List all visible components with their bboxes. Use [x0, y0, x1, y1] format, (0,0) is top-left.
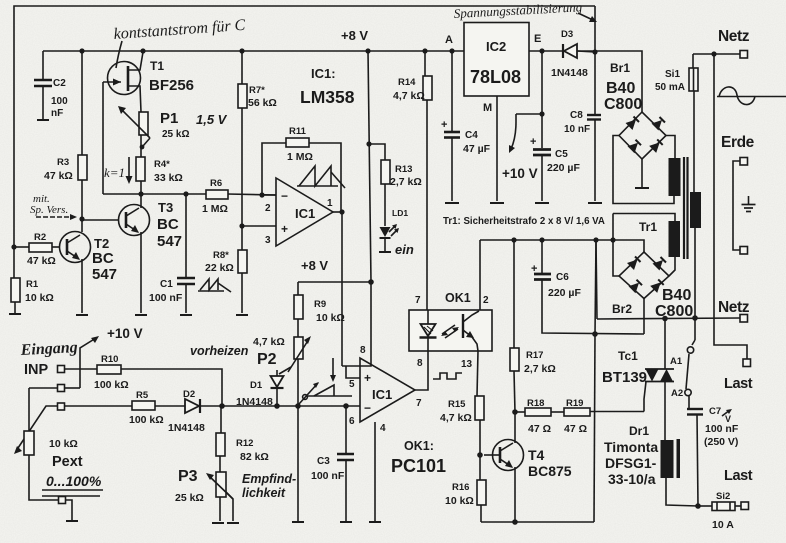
AC sine symbol	[717, 87, 786, 105]
terminal square Last upper	[743, 359, 751, 367]
svg-text:100 kΩ: 100 kΩ	[94, 379, 129, 391]
wire right rail x594 lower	[594, 334, 595, 522]
potentiometer P1 25k	[118, 106, 228, 149]
capacitor C8 10nF	[564, 110, 602, 203]
wire border right rail with C8	[594, 6, 596, 114]
svg-text:4,7 kΩ: 4,7 kΩ	[440, 412, 472, 424]
transistor T4 BC875	[484, 440, 572, 480]
svg-text:56 kΩ: 56 kΩ	[248, 97, 277, 109]
svg-text:T2: T2	[94, 236, 109, 251]
svg-text:A2: A2	[671, 388, 683, 399]
svg-text:D3: D3	[561, 29, 573, 40]
svg-text:R3: R3	[57, 157, 69, 168]
wire T1 gate down to R6 line	[102, 82, 104, 194]
ground stub T2	[76, 314, 88, 316]
resistor R19 47ohm	[564, 398, 644, 435]
wire OK1 pin2 up	[479, 240, 481, 310]
node dot x542	[539, 48, 544, 53]
node dot R13 branch	[366, 141, 371, 146]
terminal square Pext bottom	[59, 497, 66, 504]
svg-text:OK1: OK1	[445, 291, 471, 305]
bridge rectifier Br1 B40 C800	[604, 61, 666, 159]
resistor R14 4.7k	[393, 51, 432, 310]
svg-text:Last: Last	[724, 376, 753, 392]
choke Dr1 Timonta	[604, 424, 698, 506]
svg-text:10 kΩ: 10 kΩ	[25, 292, 54, 304]
node dot R17 top	[511, 237, 516, 242]
capacitor C7 100nF 250V	[687, 406, 739, 506]
svg-text:Br1: Br1	[610, 61, 630, 75]
node dot P2 ground rail	[295, 403, 301, 409]
handwritten k=1 and arrow	[104, 157, 133, 184]
bridge rectifier Br2 B40 C800	[612, 252, 693, 320]
node dot top rail x82	[79, 48, 84, 53]
svg-text:R17: R17	[526, 350, 543, 361]
resistor R8* 22k	[205, 250, 248, 315]
svg-text:R7*: R7*	[249, 85, 265, 96]
resistor R9 10k	[294, 282, 345, 337]
resistor R2 47k	[14, 232, 60, 267]
ground stub Br1	[635, 159, 649, 188]
wire IC1a output down	[341, 212, 343, 366]
transistor T2 BC547	[60, 232, 118, 314]
svg-text:C800: C800	[655, 303, 693, 320]
svg-text:C5: C5	[555, 149, 568, 160]
svg-text:P2: P2	[257, 351, 277, 368]
transformer Tr1 winding secondary 1	[669, 158, 681, 196]
svg-text:R15: R15	[448, 399, 466, 410]
resistor R10 100k	[65, 354, 223, 406]
svg-text:100 nF: 100 nF	[149, 292, 183, 304]
node A dot	[422, 48, 427, 53]
wire Br2 AC loop	[613, 214, 675, 277]
svg-text:1N4148: 1N4148	[551, 67, 588, 79]
wire Netz top with terminal	[693, 51, 748, 59]
wire IC2 M pin ground	[490, 96, 504, 203]
svg-text:1N4148: 1N4148	[236, 396, 273, 408]
svg-text:4: 4	[380, 423, 386, 434]
svg-text:47 Ω: 47 Ω	[528, 423, 551, 435]
svg-text:R10: R10	[101, 354, 118, 365]
svg-text:220 µF: 220 µF	[547, 162, 580, 174]
svg-text:1 MΩ: 1 MΩ	[202, 203, 228, 215]
handwritten Spannungsstabilisierung with arrow	[453, 0, 597, 22]
svg-text:ein: ein	[395, 242, 414, 257]
label Netz lower	[718, 299, 750, 316]
svg-text:Tr1: Sicherheitstrafo 2 x 8 V/: Tr1: Sicherheitstrafo 2 x 8 V/ 1,6 VA	[443, 216, 605, 227]
handwritten label kontstantstrom fuer C	[113, 17, 246, 68]
node dot Si2 junction	[695, 503, 701, 509]
node dot x595	[592, 49, 597, 54]
svg-text:10 kΩ: 10 kΩ	[445, 495, 474, 507]
svg-text:10 nF: 10 nF	[564, 124, 590, 135]
label Tr1	[639, 220, 657, 234]
svg-text:R11: R11	[289, 126, 307, 137]
svg-text:Netz: Netz	[718, 28, 750, 45]
svg-text:10 kΩ: 10 kΩ	[316, 312, 345, 324]
svg-text:BC: BC	[157, 216, 179, 233]
label +8V near op-amp	[301, 258, 328, 273]
label Last upper	[724, 376, 753, 392]
sawtooth glyph above op-amp	[297, 166, 345, 188]
svg-text:R16: R16	[452, 482, 469, 493]
svg-text:R8*: R8*	[213, 250, 229, 261]
svg-text:+: +	[441, 119, 447, 131]
transistor T1 BF256	[103, 52, 194, 112]
svg-text:13: 13	[461, 359, 473, 370]
svg-text:100 nF: 100 nF	[311, 470, 345, 482]
wire +8V top rail left part	[43, 50, 464, 52]
label Last lower	[724, 468, 753, 484]
node dot R4-T3 x141 y194	[138, 191, 143, 196]
svg-text:D2: D2	[183, 389, 195, 400]
svg-text:8: 8	[360, 345, 366, 356]
svg-text:Br2: Br2	[612, 302, 632, 316]
svg-text:P3: P3	[178, 468, 198, 485]
resistor R17 2.7k	[510, 240, 556, 412]
svg-text:D1: D1	[250, 380, 263, 391]
svg-text:R5: R5	[136, 390, 149, 401]
handwritten mit Sp Vers and dashed arrow	[30, 193, 77, 220]
svg-text:33-10/a: 33-10/a	[608, 471, 656, 487]
resistor R18 47ohm	[515, 398, 564, 435]
svg-text:Last: Last	[724, 468, 753, 484]
OK1 internal LED	[420, 310, 437, 351]
svg-text:100 kΩ: 100 kΩ	[129, 414, 164, 426]
svg-text:R4*: R4*	[154, 159, 170, 170]
resistor R13 2.7k	[369, 144, 422, 226]
wire mains pass-through rail	[714, 54, 747, 359]
wire T4 collector	[514, 412, 516, 443]
svg-text:Eingang: Eingang	[19, 339, 78, 359]
svg-text:+10 V: +10 V	[502, 166, 538, 181]
svg-text:R1: R1	[26, 279, 39, 290]
svg-text:nF: nF	[51, 108, 63, 119]
resistor R16 10k	[445, 480, 486, 522]
transformer Tr1 winding secondary 2	[669, 221, 681, 257]
node dot x452	[449, 48, 454, 53]
wire INP3 left to Pext wiper	[16, 406, 58, 451]
wire IC1b output to OK1 pin8	[415, 351, 428, 390]
node dot emitter on bottom wire	[512, 519, 518, 525]
wire y240 C6 rail	[480, 240, 644, 252]
resistor R3 47k	[44, 51, 87, 232]
svg-text:2,7 kΩ: 2,7 kΩ	[390, 176, 422, 188]
svg-text:LD1: LD1	[392, 208, 408, 218]
svg-text:25 kΩ: 25 kΩ	[162, 129, 189, 140]
svg-text:2: 2	[483, 295, 489, 306]
svg-text:BC875: BC875	[528, 463, 572, 479]
svg-text:E: E	[534, 33, 541, 45]
svg-text:Pext: Pext	[52, 454, 83, 470]
svg-text:C2: C2	[53, 78, 66, 89]
svg-text:50 mA: 50 mA	[655, 82, 685, 93]
svg-text:P1: P1	[160, 110, 178, 127]
svg-text:47 µF: 47 µF	[463, 143, 491, 155]
svg-text:C6: C6	[556, 272, 569, 283]
wire lower Netz y318	[597, 318, 740, 319]
step waveform glyph	[433, 373, 462, 379]
svg-text:vorheizen: vorheizen	[190, 344, 249, 358]
ground stub Pext	[66, 500, 79, 521]
svg-text:+: +	[530, 136, 536, 148]
svg-text:A: A	[445, 34, 453, 46]
svg-text:Empfind-: Empfind-	[242, 472, 296, 486]
label Erde	[721, 134, 755, 151]
svg-text:1: 1	[327, 198, 333, 209]
svg-text:Tr1: Tr1	[639, 220, 657, 234]
optocoupler OK1 box	[409, 291, 492, 370]
svg-text:3: 3	[265, 235, 271, 246]
svg-text:47 kΩ: 47 kΩ	[44, 170, 73, 182]
diode D1 1N4148	[236, 370, 284, 408]
terminal square Netz lower	[740, 315, 748, 323]
svg-text:+8 V: +8 V	[341, 28, 368, 43]
svg-text:BF256: BF256	[149, 77, 194, 94]
terminal square INP 1	[58, 366, 65, 373]
svg-text:T3: T3	[158, 200, 173, 215]
svg-text:2: 2	[265, 203, 271, 214]
switch across triac A1 A2	[670, 318, 695, 408]
label IC1 LM358	[300, 66, 355, 107]
svg-text:2,7 kΩ: 2,7 kΩ	[524, 363, 556, 375]
svg-text:R18: R18	[527, 398, 544, 409]
svg-text:C3: C3	[317, 456, 330, 467]
node dot primary branch	[692, 315, 698, 321]
node dot op-amp output	[339, 209, 344, 214]
node dot inverting input	[259, 192, 264, 197]
node dot T4 base	[477, 452, 483, 458]
op-amp U1 IC1b	[349, 345, 422, 434]
svg-text:1N4148: 1N4148	[168, 422, 205, 434]
node dot x596 y240	[593, 237, 598, 242]
svg-text:Timonta: Timonta	[604, 439, 658, 455]
OK1 phototransistor	[463, 311, 479, 351]
wire INP2 to +10V riser	[65, 387, 81, 389]
capacitor C3 100nF	[311, 406, 354, 522]
svg-text:INP: INP	[24, 362, 49, 378]
svg-text:100 nF: 100 nF	[705, 423, 739, 435]
svg-text:R2: R2	[34, 232, 46, 243]
transistor T3 BC547	[82, 200, 182, 313]
svg-text:1 MΩ: 1 MΩ	[287, 151, 313, 163]
svg-text:(250 V): (250 V)	[704, 436, 738, 448]
node dot top rail x368	[365, 48, 370, 53]
resistor R5 100k	[129, 390, 164, 426]
terminal square Si2 out	[741, 502, 749, 510]
wire pin4 to ground	[369, 422, 381, 522]
svg-text:OK1:: OK1:	[404, 439, 434, 453]
op-amp U1 IC1a	[242, 178, 342, 246]
node dot C1 branch	[183, 191, 188, 196]
IC U2 IC2 78L08	[445, 23, 541, 115]
svg-text:4,7 kΩ: 4,7 kΩ	[253, 336, 285, 348]
svg-text:547: 547	[157, 233, 182, 250]
wire R9 to pin5 jog	[342, 282, 371, 378]
node dot non-inverting branch	[239, 223, 244, 228]
svg-text:78L08: 78L08	[470, 67, 521, 87]
svg-text:R19: R19	[566, 398, 583, 409]
svg-text:R9: R9	[314, 299, 326, 310]
resistor R15 4.7k	[440, 396, 484, 480]
wire +8V rail x370 down	[368, 51, 371, 282]
svg-text:Tc1: Tc1	[618, 349, 638, 363]
main wire y406	[65, 405, 361, 407]
node dot R10-R12 junction	[219, 403, 225, 409]
svg-text:Netz: Netz	[718, 299, 750, 316]
wire y282 R9 feed	[298, 281, 371, 283]
svg-text:Si2: Si2	[716, 491, 730, 502]
resistor R1 10k on border rail	[9, 278, 54, 314]
svg-text:33 kΩ: 33 kΩ	[154, 172, 183, 184]
terminal square INP 3	[58, 403, 65, 410]
potentiometer Pext 10k	[14, 388, 103, 500]
node dot C6 top	[539, 237, 544, 242]
svg-text:547: 547	[92, 266, 117, 283]
svg-text:+: +	[531, 263, 537, 275]
svg-text:IC1:: IC1:	[311, 66, 336, 81]
wire OK1 pin13 down to R15	[477, 351, 478, 396]
triac Tc1 BT139	[602, 319, 674, 441]
capacitor C6 220uF	[531, 240, 644, 334]
sawtooth glyph beside C1	[198, 279, 231, 292]
label vorheizen	[190, 344, 249, 358]
svg-text:IC1: IC1	[372, 387, 392, 402]
svg-text:47 kΩ: 47 kΩ	[27, 255, 56, 267]
svg-text:+: +	[281, 222, 288, 236]
svg-text:PC101: PC101	[391, 456, 446, 476]
wire P2 rail to ground	[292, 359, 304, 522]
svg-text:R13: R13	[395, 164, 412, 175]
svg-text:IC2: IC2	[486, 39, 506, 54]
svg-text:22 kΩ: 22 kΩ	[205, 262, 234, 274]
ground stub T3	[135, 314, 147, 316]
handwritten Eingang	[19, 339, 78, 359]
capacitor C2	[34, 51, 68, 120]
svg-text:7: 7	[416, 398, 422, 409]
svg-text:T1: T1	[150, 59, 164, 73]
wire bottom common y522	[481, 521, 594, 523]
transformer Tr1 winding primary	[690, 192, 701, 228]
svg-text:100: 100	[51, 96, 68, 107]
terminal square INP 2	[58, 385, 65, 392]
border frame top and left	[14, 6, 595, 278]
handwritten triac sketch near pin5	[299, 358, 352, 404]
svg-text:25 kΩ: 25 kΩ	[175, 492, 204, 504]
svg-text:k=1: k=1	[104, 165, 125, 180]
wire primary bottom to lower netz	[694, 228, 696, 318]
svg-text:Erde: Erde	[721, 134, 755, 151]
svg-text:C800: C800	[604, 96, 642, 113]
diode D2 1N4148	[168, 389, 205, 434]
svg-text:6: 6	[349, 416, 355, 427]
wire D3 to Br1 corner	[577, 51, 595, 52]
node dot +8V to R9 wire	[368, 279, 374, 285]
earth ground symbol	[742, 196, 756, 212]
resistor R12 82k	[216, 406, 269, 472]
svg-text:5: 5	[349, 379, 355, 390]
wire top rail right part to Br1	[529, 51, 642, 112]
svg-text:−: −	[281, 189, 288, 203]
label INP	[24, 362, 49, 378]
svg-text:1,5 V: 1,5 V	[196, 112, 228, 127]
svg-text:8: 8	[417, 358, 423, 369]
node dot C3 branch pin6	[343, 403, 349, 409]
svg-text:DFSG1-: DFSG1-	[605, 455, 657, 471]
svg-text:R14: R14	[398, 77, 416, 88]
svg-text:Si1: Si1	[665, 69, 680, 80]
label Netz top	[718, 28, 750, 45]
potentiometer P3 25k	[175, 468, 296, 523]
capacitor C1 100nF	[149, 194, 195, 315]
transformer core	[684, 157, 688, 259]
svg-text:10 A: 10 A	[712, 519, 734, 531]
svg-text:4,7 kΩ: 4,7 kΩ	[393, 90, 425, 102]
wire x596 stub to netz	[596, 240, 597, 319]
node dot top rail x143	[140, 48, 145, 53]
diode D3 1N4148	[551, 29, 588, 79]
svg-text:T4: T4	[528, 447, 545, 463]
node dot x613 y240	[610, 237, 615, 242]
resistor R6 1M	[202, 178, 228, 215]
fuse Si1 50mA	[655, 54, 698, 192]
svg-text:lichkeit: lichkeit	[242, 486, 286, 500]
node dot R2 on border	[11, 244, 16, 249]
capacitor C5 220uF with +10V takeoff	[502, 51, 580, 203]
svg-text:B40: B40	[662, 287, 691, 304]
LED LD1	[379, 208, 414, 257]
label Tr1 Sicherheitstrafo	[443, 216, 605, 227]
svg-text:220 µF: 220 µF	[548, 287, 581, 299]
potentiometer P2	[253, 336, 311, 374]
node dot T4 collector junction	[512, 409, 518, 415]
svg-text:C7: C7	[709, 406, 721, 417]
OK1 lightning arrow	[441, 325, 459, 338]
wire T4 emitter	[514, 467, 516, 522]
resistor R11 1M feedback	[262, 126, 341, 212]
svg-text:C4: C4	[465, 130, 478, 141]
node dot D1 junction	[274, 403, 280, 409]
svg-text:C8: C8	[570, 110, 583, 121]
resistor R4* 33k	[136, 135, 183, 208]
node dot x594 y334	[592, 331, 598, 337]
label +8V top	[341, 28, 368, 43]
node dot T3 base branch	[79, 216, 84, 221]
Erde bracket with terminals	[733, 158, 748, 255]
capacitor C4 47uF	[441, 51, 491, 203]
arrow to +10V supply	[80, 326, 143, 388]
fuse Si2 10A	[698, 491, 741, 531]
svg-text:C1: C1	[160, 279, 173, 290]
wire Br1 AC loop	[613, 136, 675, 204]
svg-text:M: M	[483, 102, 492, 114]
svg-text:82 kΩ: 82 kΩ	[240, 451, 269, 463]
svg-text:0...100%: 0...100%	[46, 473, 102, 489]
svg-text:+10 V: +10 V	[107, 326, 143, 341]
svg-text:R12: R12	[236, 438, 253, 449]
svg-text:IC1: IC1	[295, 206, 315, 221]
svg-text:47 Ω: 47 Ω	[564, 423, 587, 435]
resistor R7* 56k	[238, 51, 277, 250]
wire right rail x595 mid	[595, 240, 596, 334]
node dot triac branch	[662, 316, 668, 322]
node dot top rail x242	[239, 48, 244, 53]
svg-text:7: 7	[415, 295, 421, 306]
svg-text:+: +	[364, 371, 371, 385]
svg-text:Sp. Vers.: Sp. Vers.	[30, 204, 68, 216]
label OK1 PC101	[391, 439, 446, 476]
svg-text:R6: R6	[210, 178, 222, 189]
